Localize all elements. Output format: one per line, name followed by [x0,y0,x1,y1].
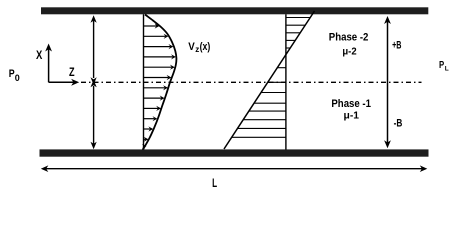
svg-text:L: L [212,176,217,190]
svg-text:Phase -1: Phase -1 [331,98,371,110]
svg-text:μ-2: μ-2 [342,45,356,57]
svg-text:L: L [445,66,449,73]
gap dimension double arrow (2B) [384,16,391,148]
X axis arrow [45,44,52,83]
svg-text:+B: +B [392,40,401,52]
top plate [41,7,428,14]
svg-text:P: P [439,60,444,71]
Z axis arrow [49,79,80,86]
svg-text:z: z [195,45,199,54]
velocity arrow 9 [144,106,162,111]
velocity arrow 7 [144,85,168,90]
bottom plate [40,149,429,156]
shear hatch lower 3 [261,92,286,94]
shear hatch upper 2 [286,24,305,26]
shear hatch lower 6 [243,119,286,121]
shear hatch lower 4 [254,102,286,104]
svg-text:0: 0 [15,73,20,83]
velocity arrow 12 [144,137,149,142]
shear hatch lower 5 [249,110,286,112]
velocity arrow 5 [144,65,175,70]
length dimension double arrow L [41,165,428,172]
svg-text:(x): (x) [200,41,211,53]
velocity arrow 6 [144,75,172,80]
svg-text:μ-1: μ-1 [344,109,360,121]
svg-text:-B: -B [394,117,403,129]
velocity arrow 4 [144,54,176,59]
centerline (dash-dot) [81,81,422,83]
velocity profile envelope curve [143,15,177,151]
shear hatch upper 4 [286,39,295,41]
shear hatch upper 3 [286,32,300,34]
velocity arrow 10 [144,116,158,121]
velocity arrow 11 [144,126,154,131]
shear stress profile diagonal line [224,11,315,149]
velocity arrow 13 (small) [142,144,146,149]
svg-text:Z: Z [69,66,75,79]
shear hatch lower 7 [238,127,286,129]
shear stress profile vertical axis [285,14,287,150]
velocity profile axis [143,14,145,150]
shear hatch upper 1 [286,17,310,19]
velocity arrow 3 [144,44,174,49]
half-gap dimension line lower (centerline to plate) [91,80,97,149]
shear hatch lower 8 [232,136,286,138]
velocity arrow 2 [144,34,169,39]
shear hatch upper 5 [286,47,290,49]
svg-text:X: X [36,49,43,62]
velocity arrow 8 [144,96,165,101]
velocity arrow 1 [144,23,160,28]
half-gap dimension line upper (plate to centerline) [91,15,97,85]
svg-text:V: V [188,41,195,53]
shear hatch lower 2 [268,81,286,83]
shear hatch lower 1 [277,67,286,69]
svg-text:Phase -2: Phase -2 [329,32,369,44]
